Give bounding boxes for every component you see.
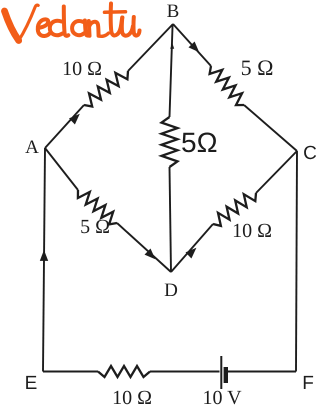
arrow on wire A-D (toward D) <box>145 249 156 260</box>
arrow on wire A-E (up) <box>40 250 48 261</box>
svg-text:5Ω: 5Ω <box>181 127 218 158</box>
vedantu logo <box>5 4 140 41</box>
bottom wire E to resistor <box>43 371 98 373</box>
svg-text:10 Ω: 10 Ω <box>62 58 102 80</box>
wire A-D lower segment <box>117 223 171 272</box>
small arrow on wire B-D near B (up) <box>170 43 174 49</box>
svg-text:F: F <box>302 373 314 394</box>
svg-text:D: D <box>164 280 178 301</box>
svg-text:10 Ω: 10 Ω <box>232 220 272 242</box>
wire B-C upper segment <box>173 24 211 66</box>
wire B-D lower vertical segment <box>170 167 172 272</box>
bottom wire resistor to battery <box>150 371 220 373</box>
resistor R_DC 10ohm zigzag <box>213 193 256 226</box>
battery V1 long plate <box>220 356 222 389</box>
resistor R_AD 5ohm zigzag <box>78 190 117 224</box>
wire A-D upper segment <box>45 148 78 190</box>
svg-text:B: B <box>167 1 180 22</box>
wire D-C lower segment <box>171 224 213 272</box>
svg-text:10 Ω: 10 Ω <box>112 387 152 409</box>
svg-text:10 V: 10 V <box>202 387 242 409</box>
wire A-B upper segment <box>128 24 173 71</box>
svg-text:5 Ω: 5 Ω <box>241 55 274 80</box>
resistor R_BC 5ohm zigzag <box>210 66 244 105</box>
wire B-D upper vertical segment <box>170 24 173 117</box>
wire A-E left vertical <box>43 148 45 372</box>
arrow on wire B-C (toward C) <box>189 42 200 53</box>
svg-text:E: E <box>25 373 38 394</box>
arrow on wire D-C (toward C) <box>186 248 197 259</box>
resistor R_EF 10ohm zigzag <box>98 366 150 377</box>
wire C-F right vertical <box>296 151 297 372</box>
svg-text:5 Ω: 5 Ω <box>80 216 110 238</box>
battery V1 short thick plate <box>224 367 228 383</box>
svg-text:A: A <box>25 137 39 158</box>
arrow on wire A-B (toward B) <box>69 114 80 125</box>
bottom wire battery to F <box>228 371 296 373</box>
resistor R_BD 5ohm vertical zigzag <box>162 117 178 167</box>
wire A-B lower segment <box>45 105 84 148</box>
resistor R_AB 10ohm zigzag <box>84 71 128 107</box>
wire D-C upper segment <box>256 151 297 193</box>
svg-text:C: C <box>303 143 317 164</box>
wire B-C lower segment <box>244 105 297 151</box>
